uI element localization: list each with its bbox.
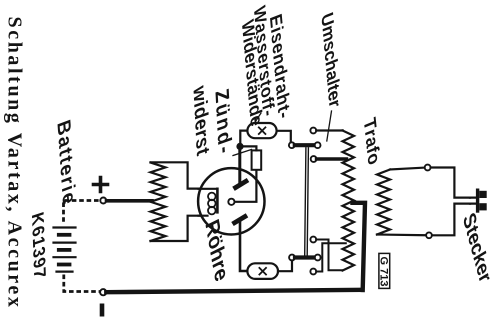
pointer line Umschalter bbox=[327, 111, 332, 141]
pointer line Zuend-widerst bbox=[233, 150, 252, 156]
wire grid to Zuend resistor bbox=[235, 170, 257, 202]
switch S1 throw contact lower bbox=[311, 156, 317, 162]
heater filament coil loops bbox=[208, 193, 216, 201]
wire throw to primary bottom end bbox=[316, 240, 342, 271]
wire cathode lead down to lamp bbox=[240, 220, 247, 272]
plug pin bottom bbox=[479, 203, 486, 210]
battery B1 dashed connection top bbox=[64, 201, 107, 225]
switch S1 throw contact upper bbox=[310, 128, 316, 134]
heater stubs inside envelope bbox=[199, 189, 218, 216]
svg-text:G 713: G 713 bbox=[378, 257, 390, 287]
battery B1 terminal circle + bbox=[100, 198, 106, 204]
connector circle bottom bbox=[426, 232, 432, 238]
minus sign - bbox=[100, 304, 105, 317]
wire bottom to plug pin bbox=[432, 204, 470, 236]
wire secondary top to plug bbox=[390, 168, 424, 170]
label G713 box bbox=[379, 253, 390, 288]
wire throw lower to primary tap (thick) bbox=[317, 157, 347, 161]
lamp L2 (Eisendraht-Wasserstoff-Widerstand) bbox=[247, 263, 278, 279]
wire lamp L2 to switch S2 pole bbox=[278, 261, 292, 272]
pointer line Widerstaende to lamp L1 bbox=[255, 113, 262, 123]
switch S1 top pole contact bbox=[289, 142, 295, 148]
lamp L1 x mark bbox=[259, 127, 266, 134]
resistor R (filament rheostat) bbox=[151, 163, 166, 242]
wire lamp L1 to switch pole bbox=[277, 131, 291, 143]
grid electrode circle bbox=[228, 199, 234, 205]
plug body bar bbox=[476, 190, 479, 211]
tube V1 envelope bbox=[198, 168, 264, 234]
wire anode lead bbox=[238, 147, 241, 185]
switch S2 bottom wiper bar bbox=[295, 255, 315, 259]
wire box top to node bbox=[241, 146, 256, 150]
switch S2 bottom end contact bbox=[315, 255, 321, 261]
resistor Zuend-widerstand box bbox=[252, 150, 262, 169]
plus sign + bbox=[94, 178, 108, 192]
switch S1 top end contact bbox=[315, 142, 321, 148]
plug (Stecker) stubs bbox=[470, 198, 476, 204]
anode plate bar top bbox=[234, 180, 249, 189]
transformer T1 secondary winding bbox=[377, 170, 390, 235]
wire R top to heater bracket bbox=[151, 162, 207, 188]
wire node up to lamp L1 bbox=[240, 131, 247, 147]
wire thick center-tap to bus (L shape) bbox=[353, 203, 366, 290]
switch S2 throw contact upper bbox=[310, 237, 316, 243]
battery B1 terminal circle - bbox=[100, 289, 106, 295]
switch S1 top wiper bar bbox=[295, 143, 315, 147]
lamp L2 x mark bbox=[259, 268, 266, 275]
svg-text:K61397: K61397 bbox=[28, 208, 49, 285]
wire secondary bottom to plug bbox=[377, 233, 426, 236]
switch S2 bottom pole contact bbox=[289, 255, 295, 261]
battery B1 plates bbox=[54, 228, 76, 272]
wire R bottom to heater bracket bbox=[151, 216, 207, 241]
node junction dot bbox=[236, 143, 243, 150]
connector circle top bbox=[425, 165, 431, 171]
wire throw to primary lower tap bbox=[316, 243, 346, 271]
wire throw upper to trafo primary top bbox=[316, 129, 343, 131]
switch S2 throw contact lower bbox=[310, 269, 316, 275]
transformer T1 primary winding bbox=[343, 131, 355, 271]
lamp L1 (Eisendraht-Wasserstoff-Widerstand) bbox=[247, 123, 276, 138]
svg-text:Zünd-: Zünd- bbox=[211, 83, 236, 161]
battery B1 dashed connection bottom bbox=[64, 275, 100, 292]
svg-text:Schaltung Vartax, Accurex: Schaltung Vartax, Accurex bbox=[4, 17, 26, 310]
wire battery + to resistor R bbox=[107, 199, 153, 203]
svg-text:widerst: widerst bbox=[189, 81, 213, 162]
plug pin top bbox=[479, 191, 486, 198]
wire bottom bus (battery minus) bbox=[106, 290, 362, 292]
switch linkage double line bbox=[305, 148, 309, 255]
heater coil right bar bbox=[216, 189, 219, 213]
wire top to plug pin bbox=[431, 168, 470, 198]
cathode plate bar bottom bbox=[233, 215, 248, 224]
